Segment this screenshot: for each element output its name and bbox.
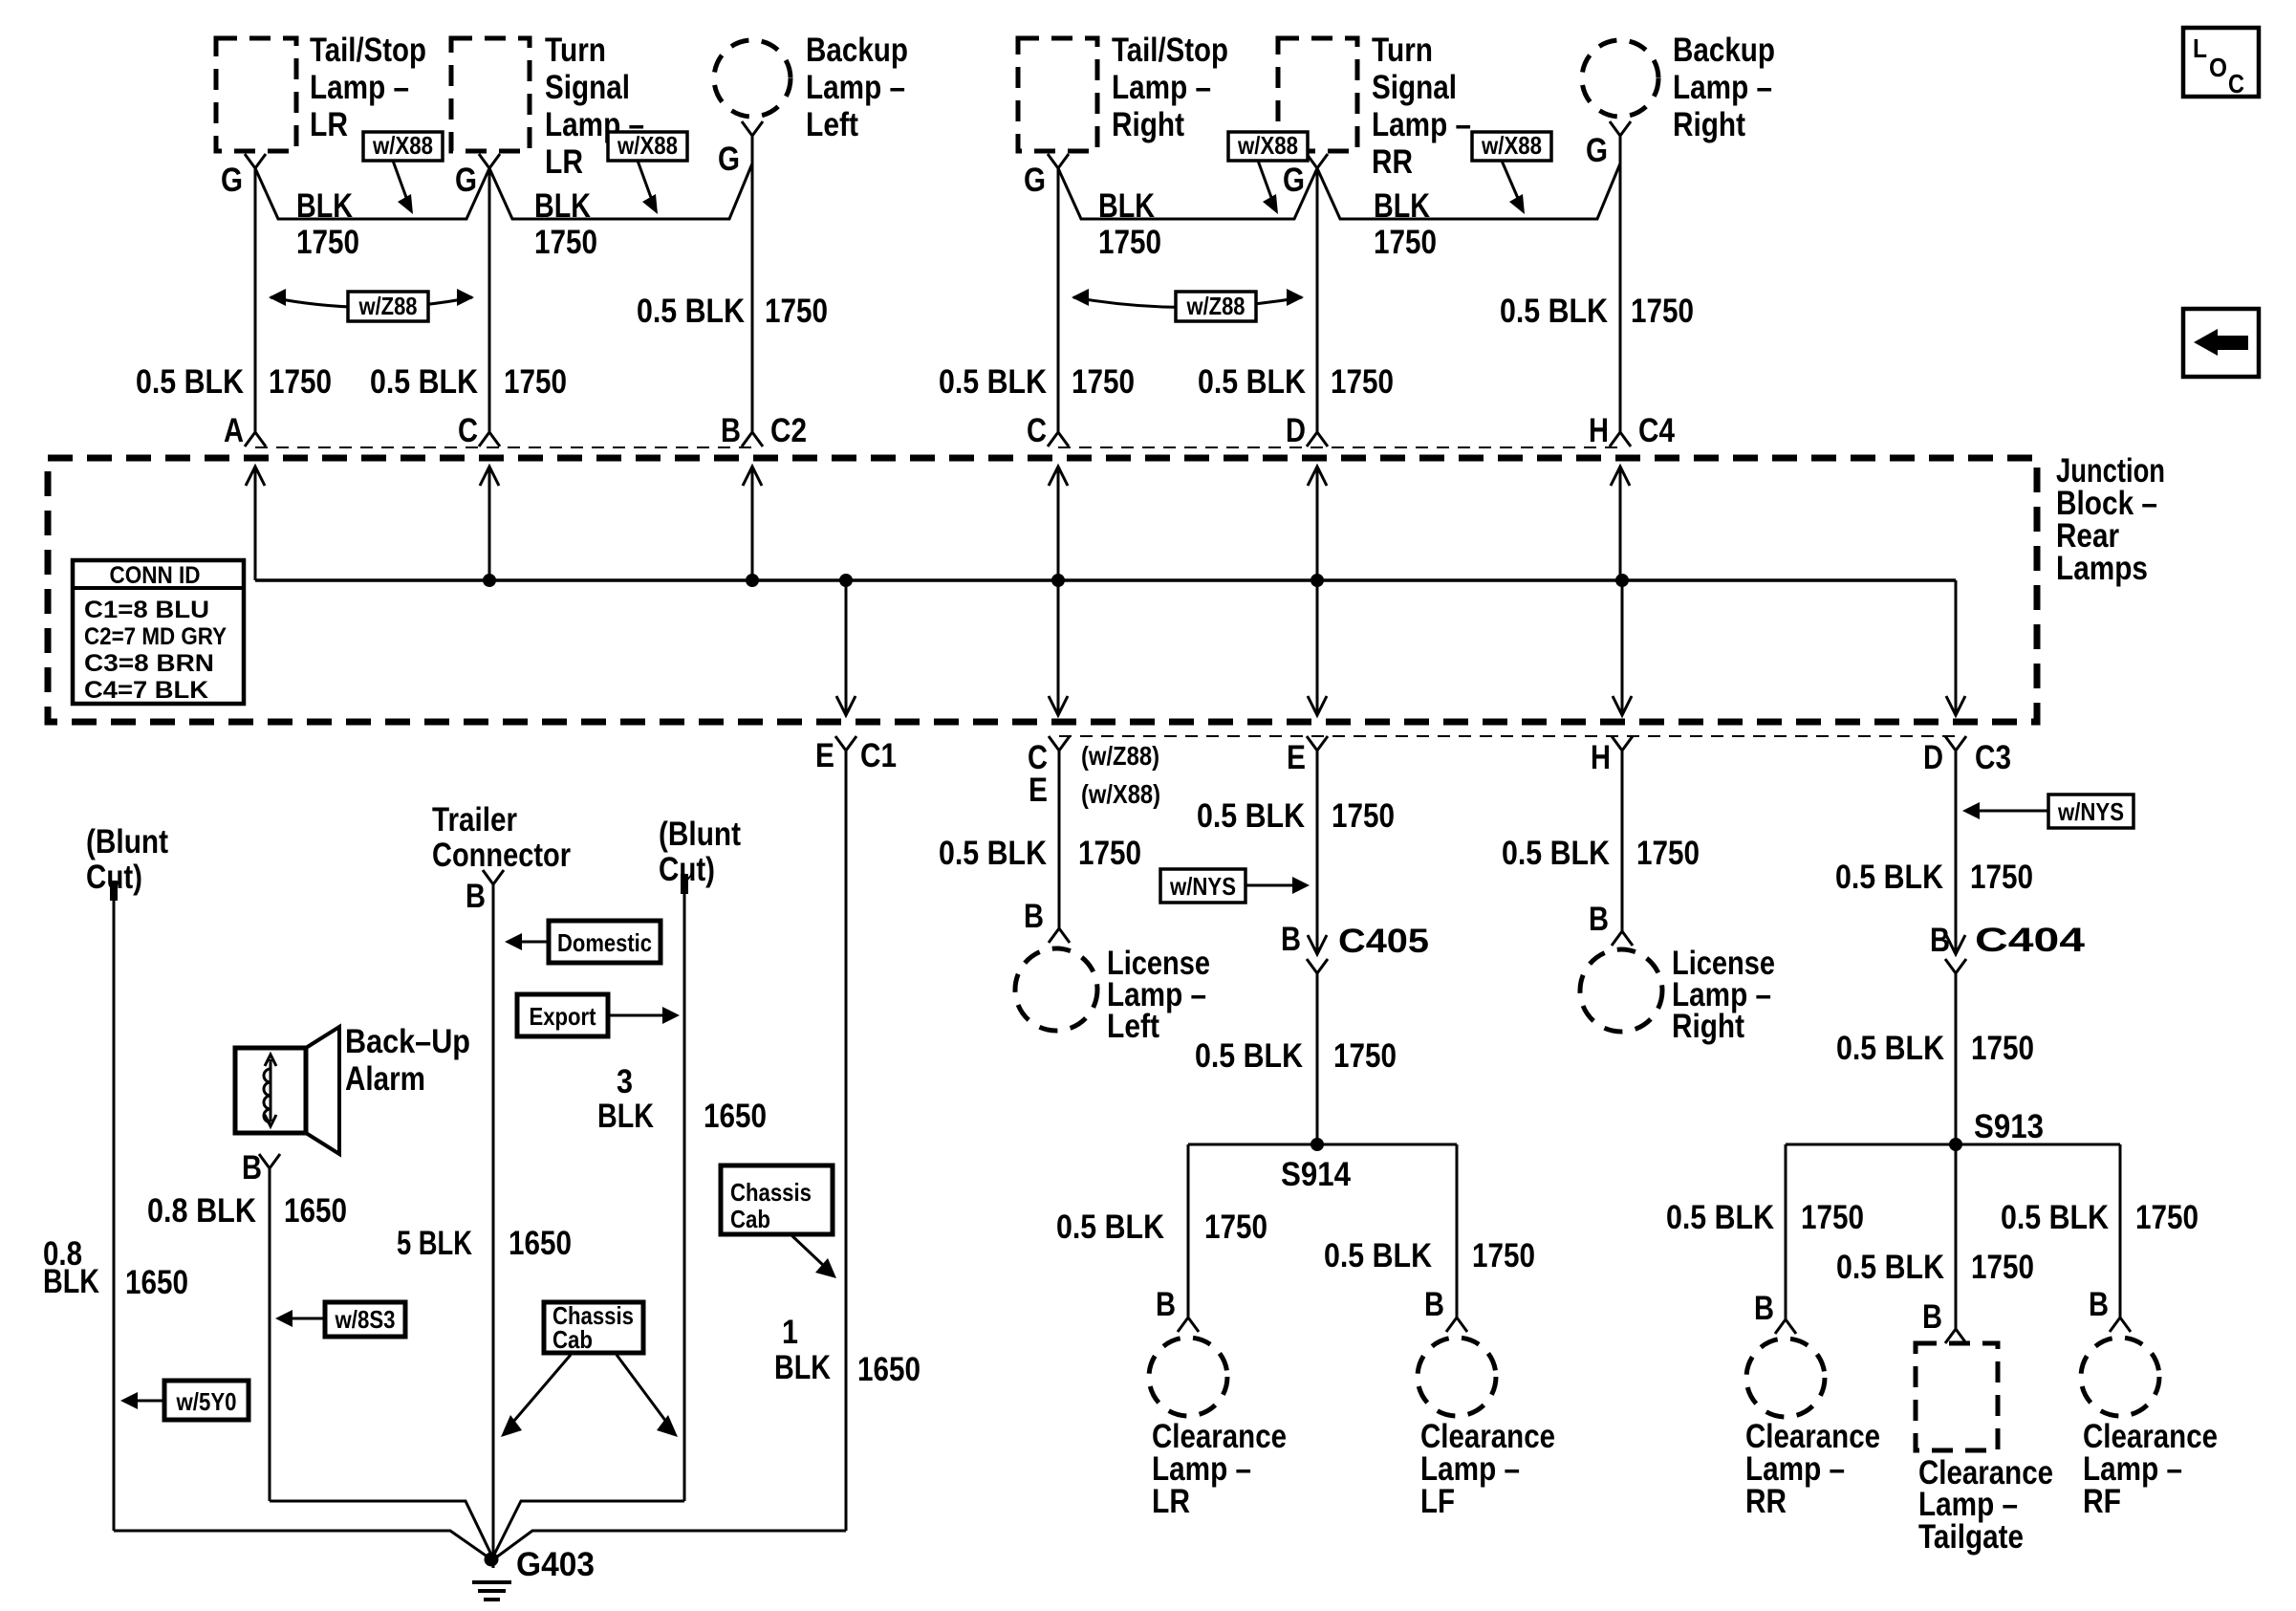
clearance lamp Tailgate (dashed box) xyxy=(1916,1343,1998,1450)
svg-text:Export: Export xyxy=(530,1002,596,1031)
svg-text:C: C xyxy=(2228,69,2244,98)
svg-text:Backup: Backup xyxy=(1673,32,1775,69)
arrow w/X88 #1 xyxy=(393,161,413,214)
callout box w/X88 #2 xyxy=(608,131,687,161)
svg-text:1: 1 xyxy=(782,1314,798,1351)
connector pin label C x=1107 xyxy=(1027,412,1047,449)
pin label B clearance LF xyxy=(1424,1286,1444,1323)
splice bar S913 xyxy=(1786,1143,2120,1146)
svg-text:A: A xyxy=(224,412,244,449)
svg-text:0.5 BLK: 0.5 BLK xyxy=(1836,1249,1944,1286)
svg-text:1750: 1750 xyxy=(1072,363,1135,401)
svg-text:B: B xyxy=(242,1149,262,1186)
svg-text:C2: C2 xyxy=(770,412,807,449)
svg-text:w/X88: w/X88 xyxy=(617,131,678,160)
connector line bottom C3 (thin dashed) xyxy=(1059,735,1956,737)
pin label G at x=1107 xyxy=(1024,162,1046,199)
connector fork top at D x=1378 xyxy=(1307,432,1328,446)
svg-text:1750: 1750 xyxy=(1374,224,1437,261)
junction block internal wire down-arrow x=2046 xyxy=(1946,580,1965,715)
label 0.5 BLK 1750 license right xyxy=(1502,835,1700,872)
junction block internal wire down-arrow x=885 xyxy=(836,580,856,715)
svg-text:G: G xyxy=(718,141,740,178)
svg-text:(Blunt: (Blunt xyxy=(659,816,741,853)
pin G fork at x=1107 xyxy=(1048,154,1069,168)
connector label D C3 xyxy=(1923,739,2011,776)
svg-text:C4=7 BLK: C4=7 BLK xyxy=(84,677,208,704)
pin G fork at x=512 xyxy=(479,154,500,168)
label Backup Lamp - Right xyxy=(1673,32,1775,143)
label Clearance Lamp - RR xyxy=(1745,1418,1880,1520)
connector pin label C x=512 xyxy=(458,412,478,449)
svg-text:E: E xyxy=(815,737,834,774)
connector fork bottom E/C1 xyxy=(835,736,856,751)
label Junction Block - Rear Lamps xyxy=(2056,452,2165,587)
connector label B C405 xyxy=(1281,921,1429,960)
alarm pin fork xyxy=(259,1154,280,1168)
label BLK 1750 jumper 2 xyxy=(534,187,597,261)
label Clearance Lamp - Tailgate xyxy=(1918,1454,2053,1556)
svg-text:G: G xyxy=(221,162,243,199)
svg-text:w/X88: w/X88 xyxy=(1237,131,1298,160)
svg-text:Lamp –: Lamp – xyxy=(1673,69,1772,106)
arrow w/5Y0 xyxy=(120,1392,164,1409)
pin fork clearance LR xyxy=(1178,1317,1199,1332)
junction node dot x=1378 xyxy=(1310,574,1324,587)
svg-text:Chassis: Chassis xyxy=(730,1178,812,1207)
connector label C E w/Z88 w/X88 xyxy=(1028,739,1160,809)
arrow w/X88 #3 xyxy=(1258,161,1278,214)
wire 0.5 BLK 1750 to clearance LF xyxy=(1456,1144,1459,1317)
pin G fork at x=267 xyxy=(245,154,266,168)
svg-text:B: B xyxy=(1024,898,1044,935)
svg-text:Alarm: Alarm xyxy=(345,1060,425,1098)
label 1 BLK 1650 xyxy=(774,1314,921,1388)
clearance lamp RR (dashed circle) xyxy=(1746,1339,1825,1417)
label 0.5 BLK 1750 backup left xyxy=(637,293,828,330)
pin label B clearance LR xyxy=(1156,1286,1176,1323)
svg-text:1750: 1750 xyxy=(1332,797,1395,835)
pin label G at x=512 xyxy=(455,162,477,199)
svg-text:1750: 1750 xyxy=(1204,1208,1267,1246)
connector line top C4 (thin dashed) xyxy=(1058,446,1622,448)
wire 0.5 BLK 1750 down at x=512 xyxy=(488,168,491,432)
svg-text:Connector: Connector xyxy=(432,837,571,874)
svg-text:w/5Y0: w/5Y0 xyxy=(176,1387,237,1416)
connector fork bottom C/E xyxy=(1049,736,1070,751)
arrow w/X88 #2 xyxy=(638,161,658,214)
pin G fork at x=1695 xyxy=(1610,121,1631,136)
pin label B license left xyxy=(1024,898,1044,935)
svg-text:0.5 BLK: 0.5 BLK xyxy=(1056,1208,1164,1246)
svg-text:1650: 1650 xyxy=(125,1264,188,1301)
label 0.5 BLK 1750 clearance tailgate xyxy=(1836,1249,2034,1286)
svg-text:1750: 1750 xyxy=(1636,835,1700,872)
arrow Domestic xyxy=(505,933,549,950)
junction block internal wire down-arrow x=1378 xyxy=(1308,580,1327,715)
svg-text:1750: 1750 xyxy=(269,363,332,401)
turn signal lamp RR (dashed box) xyxy=(1278,38,1357,151)
arrow w/NYS left xyxy=(1245,877,1310,894)
svg-text:Domestic: Domestic xyxy=(557,928,652,957)
wire 0.5 BLK 1750 to clearance RR xyxy=(1785,1144,1787,1319)
svg-text:C4: C4 xyxy=(1638,412,1675,449)
callout box w/5Y0 xyxy=(164,1381,249,1420)
svg-text:BLK: BLK xyxy=(774,1349,831,1386)
svg-text:C: C xyxy=(458,412,478,449)
license lamp Right (dashed circle) xyxy=(1580,949,1662,1032)
svg-text:Turn: Turn xyxy=(1372,32,1433,69)
svg-text:0.5 BLK: 0.5 BLK xyxy=(637,293,745,330)
svg-text:Lamp –: Lamp – xyxy=(1372,106,1471,143)
svg-text:B: B xyxy=(1754,1290,1774,1327)
label 0.5 BLK 1750 wire C xyxy=(370,363,567,401)
svg-text:w/X88: w/X88 xyxy=(372,131,433,160)
svg-text:1650: 1650 xyxy=(704,1098,767,1135)
svg-text:B: B xyxy=(1156,1286,1176,1323)
svg-text:BLK: BLK xyxy=(1098,187,1155,225)
svg-text:Tailgate: Tailgate xyxy=(1918,1518,2024,1556)
svg-text:Lamp –: Lamp – xyxy=(806,69,905,106)
svg-text:O: O xyxy=(2209,53,2227,82)
label License Lamp - Right xyxy=(1672,945,1775,1045)
svg-text:B: B xyxy=(721,412,741,449)
wire 0.5 BLK 1750 down at x=1378 xyxy=(1316,168,1319,432)
label S914 xyxy=(1281,1156,1351,1193)
junction node dot x=787 xyxy=(746,574,759,587)
svg-text:w/Z88: w/Z88 xyxy=(358,292,418,320)
svg-text:0.5 BLK: 0.5 BLK xyxy=(1195,1037,1303,1075)
svg-text:0.5 BLK: 0.5 BLK xyxy=(1198,363,1306,401)
label Tail/Stop Lamp - LR xyxy=(310,32,426,143)
svg-text:LR: LR xyxy=(1152,1483,1190,1520)
svg-text:B: B xyxy=(1589,901,1609,938)
svg-text:B: B xyxy=(1281,921,1301,958)
connector label C2 xyxy=(770,412,807,449)
wire 0.5 BLK 1750 down at x=787 xyxy=(751,136,754,432)
label S913 xyxy=(1974,1108,2044,1145)
svg-text:Right: Right xyxy=(1672,1008,1744,1045)
pin fork clearance LF xyxy=(1446,1317,1467,1332)
label 0.5 BLK 1750 above C404 xyxy=(1835,859,2033,896)
label Back-Up Alarm xyxy=(345,1023,470,1098)
svg-text:BLK: BLK xyxy=(43,1263,99,1300)
turn signal lamp LR (dashed box) xyxy=(451,38,530,151)
license lamp Left (dashed circle) xyxy=(1015,948,1097,1031)
arrow w/Z88 right (double-headed) xyxy=(1072,289,1304,308)
junction block internal wire up-arrow x=1378 xyxy=(1308,467,1327,580)
svg-text:B: B xyxy=(1424,1286,1444,1323)
arrow w/X88 #4 xyxy=(1502,161,1525,214)
wire jumper BLK 1750 (Tail/Stop LR to Turn LR) xyxy=(255,168,489,219)
pin label G at x=1378 xyxy=(1283,162,1305,199)
svg-text:0.5 BLK: 0.5 BLK xyxy=(136,363,244,401)
svg-text:0.5 BLK: 0.5 BLK xyxy=(1500,293,1608,330)
label 0.5 BLK 1750 below C405 xyxy=(1195,1037,1397,1075)
label Tail/Stop Lamp - Right xyxy=(1112,32,1228,143)
svg-text:LF: LF xyxy=(1420,1483,1455,1520)
connector pin label A x=267 xyxy=(224,412,244,449)
inline connector C404 xyxy=(1945,935,1966,973)
connector fork top at C x=512 xyxy=(479,432,500,446)
label 0.5 BLK 1750 below C404 xyxy=(1836,1030,2034,1067)
connector fork top at A x=267 xyxy=(245,432,266,446)
svg-text:H: H xyxy=(1591,739,1611,776)
label 0.5 BLK 1750 license left xyxy=(939,835,1141,872)
ground node dot G403 xyxy=(485,1553,499,1567)
label 0.8 BLK 1650 blunt left xyxy=(43,1235,188,1301)
label Turn Signal Lamp - LR xyxy=(545,32,644,181)
svg-text:w/Z88: w/Z88 xyxy=(1186,292,1245,320)
pin label B alarm xyxy=(242,1149,262,1186)
pin G fork at x=1378 xyxy=(1307,154,1328,168)
svg-text:1650: 1650 xyxy=(509,1225,572,1262)
svg-text:1650: 1650 xyxy=(284,1192,347,1230)
svg-text:1750: 1750 xyxy=(2135,1199,2199,1236)
connector pin label D x=1378 xyxy=(1286,412,1306,449)
svg-text:0.5 BLK: 0.5 BLK xyxy=(1836,1030,1944,1067)
svg-text:Tail/Stop: Tail/Stop xyxy=(310,32,426,69)
svg-text:1750: 1750 xyxy=(504,363,567,401)
junction block internal wire down-arrow x=1107 xyxy=(1049,580,1068,715)
arrow w/NYS right xyxy=(1962,802,2048,819)
label BLK 1750 jumper 3 xyxy=(1098,187,1161,261)
svg-text:1750: 1750 xyxy=(1970,859,2033,896)
svg-text:5 BLK: 5 BLK xyxy=(397,1225,472,1262)
splice dot S914 xyxy=(1310,1138,1324,1151)
label 3 BLK 1650 xyxy=(597,1063,767,1135)
svg-text:1750: 1750 xyxy=(765,293,828,330)
svg-text:RR: RR xyxy=(1372,143,1413,181)
pin label G at x=787 xyxy=(718,141,740,178)
connector fork top at B x=787 xyxy=(742,432,763,446)
pin label B clearance RF xyxy=(2089,1286,2109,1323)
pin fork clearance RR xyxy=(1775,1319,1796,1334)
svg-text:1650: 1650 xyxy=(857,1351,921,1388)
wire 0.5 BLK 1750 to clearance LR xyxy=(1187,1144,1190,1317)
svg-text:w/8S3: w/8S3 xyxy=(335,1305,396,1334)
junction block internal wire up-arrow x=1107 xyxy=(1049,467,1068,580)
svg-text:Left: Left xyxy=(1107,1008,1159,1045)
svg-text:G: G xyxy=(1283,162,1305,199)
svg-text:CONN ID: CONN ID xyxy=(110,562,201,589)
label 0.5 BLK 1750 clearance RR xyxy=(1666,1199,1864,1236)
svg-text:D: D xyxy=(1286,412,1306,449)
wire 0.5 BLK 1750 down at x=1107 xyxy=(1057,168,1060,432)
svg-text:C: C xyxy=(1027,412,1047,449)
svg-text:Right: Right xyxy=(1112,106,1184,143)
pin G fork at x=787 xyxy=(742,121,763,136)
LOC reference box xyxy=(2183,28,2259,98)
svg-text:0.5 BLK: 0.5 BLK xyxy=(1502,835,1610,872)
svg-text:1750: 1750 xyxy=(1631,293,1694,330)
svg-text:BLK: BLK xyxy=(1374,187,1430,225)
wire 0.5 BLK 1750 to license left xyxy=(1058,751,1061,928)
svg-text:E: E xyxy=(1029,772,1048,809)
svg-text:E: E xyxy=(1287,739,1306,776)
svg-text:G: G xyxy=(1024,162,1046,199)
clearance lamp LF (dashed circle) xyxy=(1418,1338,1496,1416)
svg-text:C3: C3 xyxy=(1975,739,2011,776)
inline connector C405 xyxy=(1307,935,1328,973)
label 0.5 BLK 1750 above C405 xyxy=(1197,797,1395,835)
tail/stop lamp Right (dashed box) xyxy=(1018,38,1097,151)
connector line top C2 (thin dashed) xyxy=(255,446,755,448)
tail/stop lamp LR (dashed box) xyxy=(216,38,296,151)
svg-text:1750: 1750 xyxy=(1331,363,1394,401)
arrow w/Z88 left (double-headed) xyxy=(269,289,474,308)
callout box w/X88 #4 xyxy=(1472,131,1551,161)
wire blunt left to ground xyxy=(114,1531,488,1557)
label Clearance Lamp - RF xyxy=(2083,1418,2218,1520)
svg-text:C2=7 MD GRY: C2=7 MD GRY xyxy=(84,623,227,650)
svg-text:0.5 BLK: 0.5 BLK xyxy=(1835,859,1943,896)
wire jumper BLK 1750 (Tail/Stop Right to Turn RR) xyxy=(1058,168,1317,219)
callout box Export xyxy=(517,994,608,1036)
wire jumper BLK 1750 (Turn RR to Backup Right) xyxy=(1317,163,1620,219)
svg-text:Back–Up: Back–Up xyxy=(345,1023,470,1060)
svg-text:Cab: Cab xyxy=(730,1205,770,1233)
pin label B clearance RR xyxy=(1754,1290,1774,1327)
svg-text:BLK: BLK xyxy=(534,187,591,225)
connector label H xyxy=(1591,739,1611,776)
callout box Chassis Cab middle xyxy=(544,1301,643,1354)
svg-text:LR: LR xyxy=(545,143,583,181)
splice dot S913 xyxy=(1949,1138,1962,1151)
pin fork clearance RF xyxy=(2110,1317,2131,1332)
wire trailer to ground dot xyxy=(492,1530,495,1568)
callout box w/NYS left xyxy=(1160,869,1245,903)
svg-text:Trailer: Trailer xyxy=(432,801,517,838)
svg-text:w/NYS: w/NYS xyxy=(2057,797,2124,826)
label 0.5 BLK 1750 clearance LF xyxy=(1324,1237,1535,1274)
junction block internal wire down-arrow x=1697 xyxy=(1613,580,1632,715)
svg-text:C1=8 BLU: C1=8 BLU xyxy=(84,597,209,623)
svg-text:1750: 1750 xyxy=(296,224,359,261)
junction block internal bus wire xyxy=(255,578,1956,582)
svg-text:D: D xyxy=(1923,739,1943,776)
connector pin label B x=787 xyxy=(721,412,741,449)
clearance lamp RF (dashed circle) xyxy=(2081,1338,2159,1416)
connector fork top at C x=1107 xyxy=(1048,432,1069,446)
wire 0.8 BLK 1650 blunt left xyxy=(113,901,116,1531)
svg-text:0.5 BLK: 0.5 BLK xyxy=(370,363,478,401)
svg-text:Lamps: Lamps xyxy=(2056,550,2148,587)
svg-text:Signal: Signal xyxy=(1372,69,1457,106)
svg-text:3: 3 xyxy=(617,1063,633,1100)
connector label B C404 xyxy=(1930,922,2086,959)
svg-text:B: B xyxy=(466,878,486,915)
wire jumper BLK 1750 (Turn LR to Backup Left) xyxy=(489,163,752,219)
callout box w/Z88 right xyxy=(1176,292,1256,321)
label License Lamp - Left xyxy=(1107,945,1210,1045)
svg-text:LR: LR xyxy=(310,106,348,143)
wire 0.5 BLK 1750 to clearance tailgate xyxy=(1955,1144,1958,1329)
svg-text:BLK: BLK xyxy=(597,1098,654,1135)
wire 0.5 BLK 1750 below C404 xyxy=(1955,973,1958,1144)
svg-text:Cab: Cab xyxy=(552,1325,593,1354)
junction block internal wire up-arrow x=267 xyxy=(246,467,265,580)
svg-text:Right: Right xyxy=(1673,106,1745,143)
label 0.5 BLK 1750 wire D xyxy=(1198,363,1394,401)
label Turn Signal Lamp - RR xyxy=(1372,32,1471,181)
pin label B trailer xyxy=(466,878,486,915)
label BLK 1750 jumper 1 xyxy=(296,187,359,261)
svg-text:RR: RR xyxy=(1745,1483,1787,1520)
callout box Chassis Cab right xyxy=(721,1165,833,1234)
pin label B clearance tailgate xyxy=(1922,1298,1942,1336)
svg-text:1750: 1750 xyxy=(1472,1237,1535,1274)
svg-text:1750: 1750 xyxy=(1801,1199,1864,1236)
label 0.5 BLK 1750 backup right xyxy=(1500,293,1694,330)
pin label B license right xyxy=(1589,901,1609,938)
wire 0.5 BLK 1750 to license right xyxy=(1621,751,1624,931)
junction node dot x=512 xyxy=(483,574,496,587)
junction node dot x=885 xyxy=(839,574,853,587)
label BLK 1750 jumper 4 xyxy=(1374,187,1437,261)
junction block internal wire up-arrow x=787 xyxy=(743,467,762,580)
wire 1 BLK to ground xyxy=(496,1531,846,1557)
wire 0.5 BLK 1750 to clearance RF xyxy=(2119,1144,2122,1317)
wire 0.5 BLK 1750 above C404 xyxy=(1955,751,1958,954)
connector fork bottom D/C3 xyxy=(1945,736,1966,751)
svg-text:B: B xyxy=(2089,1286,2109,1323)
svg-text:G: G xyxy=(1586,132,1608,169)
connector fork bottom E xyxy=(1307,736,1328,751)
wire 0.5 BLK 1750 below C405 xyxy=(1316,973,1319,1144)
connector label C4 xyxy=(1638,412,1675,449)
blunt cut terminal left xyxy=(110,881,118,901)
callout box w/NYS right xyxy=(2048,795,2134,828)
label G403 xyxy=(516,1546,595,1583)
label Clearance Lamp - LF xyxy=(1420,1418,1555,1520)
label blunt cut left xyxy=(86,823,168,896)
svg-text:1750: 1750 xyxy=(534,224,597,261)
svg-text:BLK: BLK xyxy=(296,187,353,225)
wire 5 BLK 1650 trailer xyxy=(492,884,495,1557)
svg-text:0.5 BLK: 0.5 BLK xyxy=(1666,1199,1774,1236)
callout box Domestic xyxy=(549,921,661,963)
connector label E xyxy=(1287,739,1306,776)
svg-text:Lamp –: Lamp – xyxy=(310,69,409,106)
svg-text:C405: C405 xyxy=(1338,923,1429,960)
svg-text:w/X88: w/X88 xyxy=(1481,131,1542,160)
clearance lamp LR (dashed circle) xyxy=(1149,1338,1227,1416)
wire 0.8 BLK 1650 alarm xyxy=(269,1168,271,1501)
callout box w/Z88 left xyxy=(348,292,428,321)
svg-text:Backup: Backup xyxy=(806,32,908,69)
pin fork license right xyxy=(1612,931,1633,946)
svg-text:Signal: Signal xyxy=(545,69,630,106)
svg-text:w/NYS: w/NYS xyxy=(1169,872,1236,901)
svg-text:(w/Z88): (w/Z88) xyxy=(1081,741,1159,771)
pin label G at x=267 xyxy=(221,162,243,199)
label blunt cut right xyxy=(659,816,741,888)
svg-text:L: L xyxy=(2193,33,2207,63)
callout box w/8S3 xyxy=(325,1302,405,1337)
svg-text:C404: C404 xyxy=(1975,922,2086,959)
ground symbol G403 xyxy=(472,1582,511,1600)
svg-text:0.5 BLK: 0.5 BLK xyxy=(1197,797,1305,835)
junction node dot x=1107 xyxy=(1051,574,1065,587)
svg-text:Left: Left xyxy=(806,106,858,143)
junction node dot x=1697 xyxy=(1615,574,1629,587)
wire 0.5 BLK 1750 down at x=1695 xyxy=(1619,136,1622,432)
junction block internal wire up-arrow x=512 xyxy=(480,467,499,580)
connector label E C1 xyxy=(815,737,897,774)
svg-text:(w/X88): (w/X88) xyxy=(1081,779,1160,809)
wire 3 BLK 1650 blunt right xyxy=(683,894,686,1501)
